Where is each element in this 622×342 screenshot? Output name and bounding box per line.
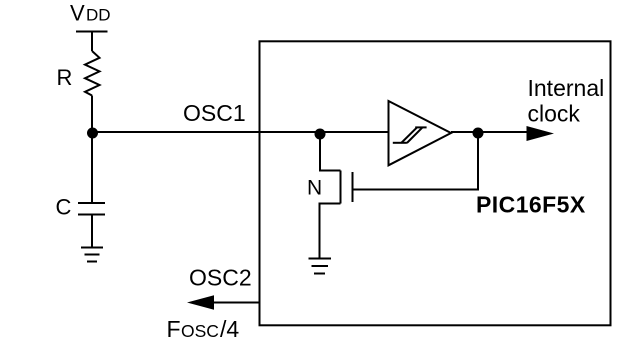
svg-text:C: C bbox=[56, 195, 72, 220]
svg-text:R: R bbox=[57, 65, 73, 90]
wire transistor source to ground bbox=[320, 204, 341, 259]
label VDD bbox=[70, 1, 111, 26]
resistor R bbox=[85, 51, 100, 96]
svg-text:DD: DD bbox=[86, 6, 111, 25]
node A junction dot bbox=[87, 128, 98, 139]
ground (below capacitor) bbox=[81, 248, 103, 262]
wire VDD to resistor bbox=[91, 32, 93, 52]
svg-text:V: V bbox=[70, 1, 85, 26]
wire node B to transistor drain bbox=[320, 132, 341, 171]
svg-text:OSC2: OSC2 bbox=[189, 265, 252, 291]
capacitor C bbox=[78, 203, 105, 215]
hysteresis symbol inside U1 bbox=[393, 127, 427, 143]
power rail VDD bbox=[76, 31, 108, 33]
svg-text:clock: clock bbox=[528, 100, 581, 126]
wire OSC1 (node A to inverter input) bbox=[92, 131, 389, 133]
svg-text:/4: /4 bbox=[220, 316, 239, 342]
transistor N (MOSFET) bbox=[341, 171, 353, 204]
svg-text:PIC16F5X: PIC16F5X bbox=[476, 192, 586, 218]
svg-text:F: F bbox=[167, 316, 181, 342]
IC boundary box PIC16F5X bbox=[260, 41, 611, 325]
svg-text:OSC: OSC bbox=[181, 321, 219, 341]
node C junction dot bbox=[473, 128, 484, 139]
svg-text:Internal: Internal bbox=[528, 75, 605, 101]
wire node A to capacitor bbox=[91, 132, 93, 203]
arrowhead OSC2 bbox=[187, 295, 214, 310]
op-amp U1 Schmitt trigger inverter bbox=[389, 101, 452, 165]
wire capacitor to ground bbox=[91, 215, 93, 248]
label FOSC/4 bbox=[167, 316, 240, 342]
ground (below transistor) bbox=[309, 259, 332, 274]
label Internal clock bbox=[528, 75, 605, 126]
wire gate to inverter output bbox=[353, 132, 479, 190]
wire inverter output bbox=[451, 131, 527, 133]
wire OSC2 out of box bbox=[214, 302, 260, 304]
wire resistor to node A bbox=[91, 96, 93, 133]
svg-text:N: N bbox=[307, 177, 322, 200]
arrowhead internal clock bbox=[527, 126, 555, 141]
svg-text:OSC1: OSC1 bbox=[183, 100, 246, 126]
node B junction dot bbox=[315, 129, 326, 140]
